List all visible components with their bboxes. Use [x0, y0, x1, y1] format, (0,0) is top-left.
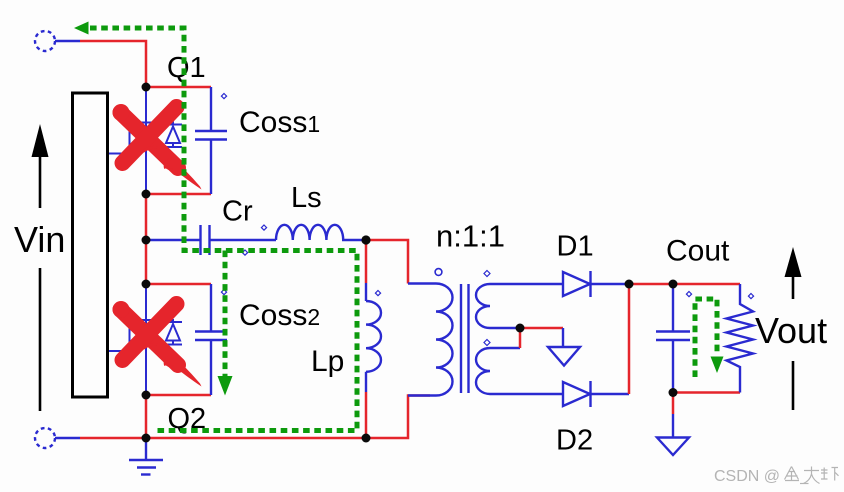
node marker Lp terminal — [375, 291, 380, 296]
green arrowhead down (output loop) — [711, 357, 724, 374]
capacitor Coss1 — [195, 87, 227, 194]
node Q1 source junction — [142, 190, 151, 199]
Vin arrow (polarity arrow) — [39, 131, 42, 208]
capacitor Cr — [146, 225, 276, 255]
watermark CJK glyphs — [785, 467, 839, 484]
inductor Lp — [366, 283, 381, 392]
svg-text:Cout: Cout — [666, 235, 730, 268]
node marker Coss1 terminal — [221, 94, 226, 99]
wire green top-left segment with left arrow — [90, 28, 357, 431]
capacitor Coss2 — [195, 284, 227, 395]
wire (blue stub from P2) — [55, 437, 80, 439]
wire (red rectifier output vertical, D1 cathode to D2 cathode) — [628, 284, 631, 394]
transistor Q1 (MOSFET, blue symbol) — [109, 87, 182, 194]
wire (red center-tap vertical) — [519, 328, 522, 348]
wire (red stub below Cout to ground) — [672, 393, 675, 415]
red X mark over Q1 (fault cross) — [113, 104, 202, 190]
transformer T1 primary winding — [408, 284, 453, 396]
node half-bridge midpoint junction — [142, 236, 151, 245]
green arrowhead down (Coss2 branch) — [218, 376, 233, 396]
voltage source body (input source rectangle) — [73, 93, 108, 397]
node bottom rail ground junction — [142, 434, 151, 443]
transistor Q2 (MOSFET, blue symbol) — [109, 284, 182, 395]
red X mark over Q2 (fault cross) — [113, 301, 202, 387]
node Cout bottom junction — [669, 388, 678, 397]
capacitor Cout — [656, 284, 690, 393]
wire green output load loop — [695, 299, 717, 377]
svg-text:D2: D2 — [556, 425, 593, 457]
node Cout top junction — [669, 280, 678, 289]
wire (red bottom rail to primary bottom) — [366, 396, 430, 439]
ground (output side, triangle ground) — [657, 414, 689, 455]
transformer polarity dot primary — [435, 269, 442, 276]
svg-text:Vout: Vout — [755, 310, 827, 351]
node Q2 drain junction — [142, 280, 151, 289]
wire (red Q2 source to Coss2 bottom) — [146, 394, 211, 397]
wire (red Ls out to primary top) — [366, 240, 408, 284]
Vout arrow (output polarity arrow) — [792, 277, 795, 299]
wire (red Q1 drain to Coss1 top) — [146, 86, 211, 89]
ground (input side, three-bar ground) — [129, 438, 163, 475]
wire (red output top rail) — [629, 283, 740, 286]
terminal port P1 (top-left input terminal) — [35, 31, 55, 51]
diode D2 — [563, 381, 629, 407]
node marker Rload terminal — [748, 294, 753, 299]
wire green Coss2 branch — [223, 251, 228, 377]
svg-text:Cr: Cr — [222, 196, 253, 228]
wire (blue stub from P1) — [55, 40, 80, 42]
node Q2 source junction — [142, 391, 151, 400]
green current path loop (dead-time resonant current) — [90, 28, 717, 431]
diode D1 — [563, 271, 629, 297]
node transformer center tap junction — [516, 324, 525, 333]
inductor Ls — [276, 225, 366, 240]
svg-text:Coss2: Coss2 — [239, 299, 320, 332]
ground (center-tap arrow terminal) — [548, 328, 580, 366]
wire (red Q1 source to Coss1 bottom) — [146, 193, 211, 196]
node Q1 drain junction — [142, 83, 151, 92]
wire (red bottom rail) — [80, 437, 366, 440]
terminal port P2 (bottom-left input terminal) — [35, 428, 55, 448]
resistor Rload (output load) — [727, 284, 754, 393]
svg-text:n:1:1: n:1:1 — [436, 219, 505, 254]
wire (red Lp bottom to bottom rail) — [365, 392, 368, 438]
wire (red mid node down to Q2 drain) — [145, 240, 148, 284]
wire (red Q2 source down to bottom rail) — [145, 395, 148, 438]
svg-text:D1: D1 — [557, 231, 594, 263]
green arrowhead left (top) — [74, 22, 89, 35]
wire (red Q1 source down to mid node) — [145, 194, 148, 240]
node marker on green path near Cr — [242, 250, 247, 255]
svg-text:Q1: Q1 — [167, 52, 206, 84]
transformer polarity dot secondary lower — [484, 340, 490, 346]
svg-text:Ls: Ls — [291, 182, 322, 214]
svg-text:Vin: Vin — [14, 219, 65, 260]
wire (red output bottom rail) — [673, 391, 740, 394]
wire (red top-left: P1 to Q1 drain node) — [80, 41, 146, 87]
svg-text:Coss1: Coss1 — [239, 106, 320, 139]
node Lp top junction — [361, 235, 370, 244]
svg-text:CSDN @: CSDN @ — [714, 468, 780, 485]
transformer polarity dot secondary upper — [484, 271, 490, 277]
transformer T1 core — [461, 284, 469, 393]
node marker Coss2 terminal — [221, 290, 226, 295]
wire (red center-tap) — [520, 327, 563, 330]
transformer T1 secondary winding upper — [476, 284, 563, 328]
node marker Ls terminal — [261, 225, 266, 230]
node marker Cout terminal — [686, 292, 691, 297]
wire (red Q2 drain to Coss2 top) — [146, 283, 211, 286]
node rectifier output junction — [625, 280, 634, 289]
node Lp bottom junction — [362, 434, 371, 443]
svg-text:Lp: Lp — [311, 345, 344, 378]
wire (red mid node to Lp top) — [365, 240, 368, 283]
transformer T1 secondary winding lower — [476, 348, 563, 394]
